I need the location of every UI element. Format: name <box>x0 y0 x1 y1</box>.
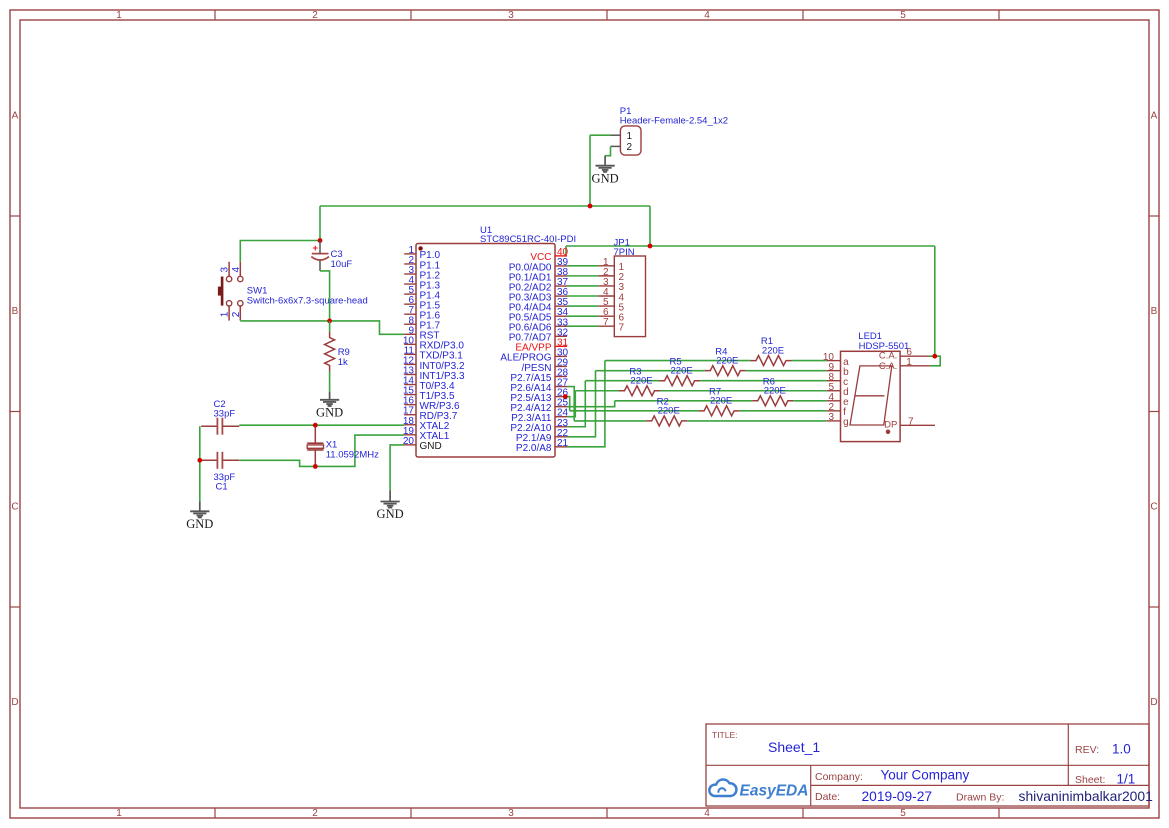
JP1 pin 1 <box>598 265 614 267</box>
U1 pin 16 WR/P3.6 <box>404 404 416 406</box>
svg-text:1: 1 <box>627 131 633 142</box>
resistor R4 220E <box>705 366 746 376</box>
svg-text:2: 2 <box>231 311 242 317</box>
svg-text:Date:: Date: <box>815 791 840 803</box>
ground below P1 <box>604 156 606 166</box>
svg-text:D: D <box>11 697 18 708</box>
svg-text:5: 5 <box>900 808 906 819</box>
ground below R9 <box>329 392 331 400</box>
P1 pin 1 <box>611 134 621 136</box>
svg-text:3: 3 <box>828 412 834 423</box>
LED1 digit outline <box>850 366 892 425</box>
U1 pin 26 P2.5/A13 <box>555 396 567 398</box>
svg-text:TITLE:: TITLE: <box>712 730 738 740</box>
junction at P1 drop <box>588 204 593 209</box>
LED1 pin 10 segment a <box>827 360 841 362</box>
svg-text:P2.0/A8: P2.0/A8 <box>516 443 552 454</box>
U1 pin 8 P1.7 <box>404 323 416 325</box>
wire P2.4 to row e <box>567 401 615 407</box>
svg-text:220E: 220E <box>710 396 732 407</box>
svg-text:20: 20 <box>403 436 415 447</box>
svg-text:1: 1 <box>116 808 122 819</box>
svg-text:11.0592MHz: 11.0592MHz <box>326 450 379 461</box>
wire row f right <box>740 410 827 412</box>
svg-text:GND: GND <box>377 507 404 521</box>
svg-text:7: 7 <box>603 317 609 328</box>
JP1 pin 4 <box>598 295 614 297</box>
wire P2.6 to row g <box>567 387 574 421</box>
capacitor C1 33pF <box>201 459 217 461</box>
crystal X1 11.0592MHz <box>314 425 316 443</box>
wire row d left <box>575 390 619 392</box>
wire U1 P0.1 to JP1 2 <box>567 275 598 277</box>
U1 pin 36 P0.3/AD3 <box>555 295 567 297</box>
svg-text:shivaninimbalkar2001: shivaninimbalkar2001 <box>1019 788 1154 804</box>
junction X1 top <box>313 423 318 428</box>
resistor R2 220E <box>646 416 687 426</box>
svg-text:220E: 220E <box>716 355 738 366</box>
U1 pin 27 P2.6/A14 <box>555 386 567 388</box>
connector JP1 7PIN <box>614 256 645 337</box>
svg-text:1: 1 <box>906 357 912 368</box>
svg-text:1.0: 1.0 <box>1112 742 1131 757</box>
svg-text:GND: GND <box>592 171 619 185</box>
svg-text:3: 3 <box>508 808 514 819</box>
svg-text:7: 7 <box>619 323 625 334</box>
U1 pin 4 P1.3 <box>404 283 416 285</box>
svg-text:GND: GND <box>186 517 213 531</box>
LED1 pin 4 segment e <box>827 400 841 402</box>
U1 pin 3 P1.2 <box>404 273 416 275</box>
svg-text:C: C <box>11 502 18 513</box>
wire row d right <box>660 390 827 392</box>
LED1 pin 7 DP <box>900 424 935 426</box>
svg-text:1: 1 <box>220 311 231 317</box>
wire VCC to C3/SW1 <box>319 206 321 241</box>
resistor R1 220E <box>751 356 792 366</box>
JP1 pin 5 <box>598 305 614 307</box>
wire C1 to XTAL1 <box>239 435 404 466</box>
wire row a right <box>792 360 827 362</box>
svg-text:5: 5 <box>900 10 906 21</box>
wire row e left <box>615 400 753 402</box>
JP1 pin 6 <box>598 315 614 317</box>
svg-text:REV:: REV: <box>1075 744 1099 756</box>
svg-text:STC89C51RC-40I-PDI: STC89C51RC-40I-PDI <box>480 234 576 245</box>
wire P2.0 to row a <box>567 361 605 447</box>
U1 pin 38 P0.1/AD1 <box>555 275 567 277</box>
wire U1 P0.2 to JP1 3 <box>567 285 598 287</box>
U1 pin 30 ALE/PROG <box>555 355 567 357</box>
svg-text:GND: GND <box>420 441 442 452</box>
U1 pin 15 T1/P3.5 <box>404 394 416 396</box>
svg-text:1k: 1k <box>338 357 348 368</box>
svg-text:C: C <box>1150 502 1157 513</box>
U1 pin 31 EA/VPP <box>555 345 567 347</box>
wire U1 P0.4 to JP1 5 <box>567 305 598 307</box>
svg-text:g: g <box>843 417 849 428</box>
U1 pin 37 P0.2/AD2 <box>555 285 567 287</box>
EasyEDA logo <box>709 779 736 796</box>
wire U1 P0.6 to JP1 7 <box>567 325 598 327</box>
svg-text:2019-09-27: 2019-09-27 <box>862 789 933 804</box>
svg-text:7PIN: 7PIN <box>614 247 635 258</box>
LED1 pin 6 C.A. <box>900 355 929 357</box>
svg-text:Sheet:: Sheet: <box>1075 774 1105 786</box>
LED1 pin 9 segment b <box>827 370 841 372</box>
svg-text:Header-Female-2.54_1x2: Header-Female-2.54_1x2 <box>620 115 728 126</box>
ground below U1 <box>389 491 391 502</box>
U1 pin 13 INT1/P3.3 <box>404 374 416 376</box>
svg-text:220E: 220E <box>762 345 784 356</box>
wire row b right <box>746 370 827 372</box>
junction C1 left <box>197 458 202 463</box>
svg-text:220E: 220E <box>764 386 786 397</box>
wire P2.2 to row c <box>567 381 585 427</box>
svg-text:220E: 220E <box>658 406 680 417</box>
wire pin40 jog <box>565 246 567 256</box>
svg-text:A: A <box>12 111 19 122</box>
LED1 pin 3 segment g <box>827 420 841 422</box>
switch SW1 <box>228 262 230 277</box>
wire P1 pin1 <box>590 134 611 136</box>
U1 pin 35 P0.4/AD4 <box>555 305 567 307</box>
wire row b left <box>596 370 705 372</box>
title block <box>706 724 1149 806</box>
junction at LED CA <box>932 354 937 359</box>
U1 pin 17 RD/P3.7 <box>404 414 416 416</box>
U1 pin 22 P2.1/A9 <box>555 436 567 438</box>
resistor R6 220E <box>752 396 793 406</box>
wire U1 P0.0 to JP1 1 <box>567 265 598 267</box>
U1 pin 21 P2.0/A8 <box>555 446 567 448</box>
svg-text:C.A.: C.A. <box>879 350 897 361</box>
U1 pin 39 P0.0/AD0 <box>555 265 567 267</box>
U1 pin 34 P0.5/AD5 <box>555 315 567 317</box>
svg-text:Sheet_1: Sheet_1 <box>768 739 820 755</box>
svg-text:DP: DP <box>884 419 897 430</box>
svg-text:D: D <box>1150 697 1157 708</box>
wire row e right <box>793 400 826 402</box>
U1 pin 33 P0.6/AD6 <box>555 325 567 327</box>
U1 pin 6 P1.5 <box>404 303 416 305</box>
JP1 pin 3 <box>598 285 614 287</box>
U1 pin 18 XTAL2 <box>404 424 416 426</box>
svg-text:Your Company: Your Company <box>881 768 970 783</box>
svg-text:B: B <box>1151 306 1158 317</box>
junction above C3 <box>318 238 323 243</box>
LED1 pin 1 C.A. <box>900 365 930 367</box>
ground bottom left <box>199 501 201 511</box>
JP1 pin 7 <box>598 325 614 327</box>
svg-text:7: 7 <box>908 416 914 427</box>
svg-text:Company:: Company: <box>815 771 863 783</box>
svg-text:+: + <box>313 243 319 254</box>
svg-text:2: 2 <box>312 808 318 819</box>
U1 pin 23 P2.2/A10 <box>555 426 567 428</box>
U1 pin 10 RXD/P3.0 <box>404 343 416 345</box>
svg-text:GND: GND <box>316 405 343 419</box>
U1 pin 19 XTAL1 <box>404 434 416 436</box>
junction X1 bottom <box>313 464 318 469</box>
svg-text:21: 21 <box>557 438 569 449</box>
U1 pin 20 GND <box>404 444 416 446</box>
junction at JP1 riser <box>648 244 653 249</box>
U1 pin 24 P2.3/A11 <box>555 416 567 418</box>
U1 pin 29 /PESN <box>555 365 567 367</box>
P1 pin 2 <box>611 145 621 147</box>
svg-text:3: 3 <box>508 10 514 21</box>
U1 pin 11 TXD/P3.1 <box>404 353 416 355</box>
wire P1 pin2 to ground <box>605 146 610 155</box>
svg-text:2: 2 <box>312 10 318 21</box>
U1 pin 32 P0.7/AD7 <box>555 335 567 337</box>
wire VCC bus top <box>589 135 591 206</box>
svg-text:4: 4 <box>704 10 710 21</box>
svg-text:1: 1 <box>116 10 122 21</box>
U1 pin 5 P1.4 <box>404 293 416 295</box>
svg-text:4: 4 <box>231 267 242 273</box>
wire row a left <box>605 360 751 362</box>
wire LED CA jog <box>929 356 940 366</box>
U1 pin 14 T0/P3.4 <box>404 384 416 386</box>
LED1 pin 2 segment f <box>827 410 841 412</box>
resistor R9 1k <box>329 321 331 332</box>
wire P2.3 to row d <box>567 391 575 417</box>
wire VCC to LED <box>934 246 936 356</box>
svg-text:1/1: 1/1 <box>1117 772 1136 787</box>
svg-text:10uF: 10uF <box>331 259 353 270</box>
U1 pin 12 INT0/P3.2 <box>404 363 416 365</box>
svg-text:3: 3 <box>220 267 231 273</box>
junction P2.5 <box>563 394 568 399</box>
svg-text:220E: 220E <box>671 365 693 376</box>
svg-text:A: A <box>1151 111 1158 122</box>
wire SW1 to RST <box>240 320 329 322</box>
wire C3 to junction <box>320 271 330 321</box>
wire C2 left down <box>199 426 201 501</box>
svg-text:4: 4 <box>704 808 710 819</box>
svg-text:2: 2 <box>627 142 633 153</box>
JP1 pin 2 <box>598 275 614 277</box>
svg-text:220E: 220E <box>630 375 652 386</box>
U1 pin 25 P2.4/A12 <box>555 406 567 408</box>
svg-text:B: B <box>12 306 19 317</box>
wire row g right <box>687 420 827 422</box>
wire P2.5 to row f <box>565 397 569 411</box>
U1 pin 40 VCC <box>555 255 567 257</box>
wire row c left <box>585 380 659 382</box>
wire row c right <box>700 380 827 382</box>
resistor R5 220E <box>659 376 700 386</box>
wire C2 to XTAL2 <box>239 424 404 426</box>
resistor R3 220E <box>619 386 660 396</box>
IC U1 STC89C51RC-40I-PDI <box>416 244 555 458</box>
wire U1 P0.5 to JP1 6 <box>567 315 598 317</box>
U1 pin 9 RST <box>404 333 416 335</box>
svg-text:Drawn By:: Drawn By: <box>956 792 1004 804</box>
connector P1 Header-Female-2.54_1x2 <box>620 126 641 155</box>
wire row g left <box>574 420 646 422</box>
LED1 pin 8 segment c <box>827 380 841 382</box>
svg-text:Switch-6x6x7.3-square-head: Switch-6x6x7.3-square-head <box>247 295 368 306</box>
wire GND pin20 <box>390 445 404 491</box>
U1 pin 2 P1.1 <box>404 263 416 265</box>
junction at R9 top <box>327 319 332 324</box>
wire U1 P0.3 to JP1 4 <box>567 295 598 297</box>
LED1 pin 5 segment d <box>827 390 841 392</box>
wire row f left <box>570 410 699 412</box>
svg-text:EasyEDA: EasyEDA <box>740 783 809 800</box>
resistor R7 220E <box>699 406 740 416</box>
wire P2.1 to row b <box>567 371 596 437</box>
U1 pin 1 P1.0 <box>404 253 416 255</box>
LED1 HDSP-5501 seven segment display <box>841 351 901 441</box>
svg-text:C1: C1 <box>216 481 228 492</box>
U1 pin 28 P2.7/A15 <box>555 376 567 378</box>
U1 pin 7 P1.6 <box>404 313 416 315</box>
